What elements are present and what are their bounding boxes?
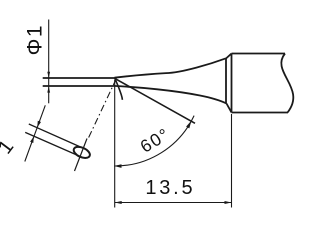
svg-text:13.5: 13.5 bbox=[145, 177, 195, 199]
svg-text:Φ1: Φ1 bbox=[23, 24, 46, 55]
